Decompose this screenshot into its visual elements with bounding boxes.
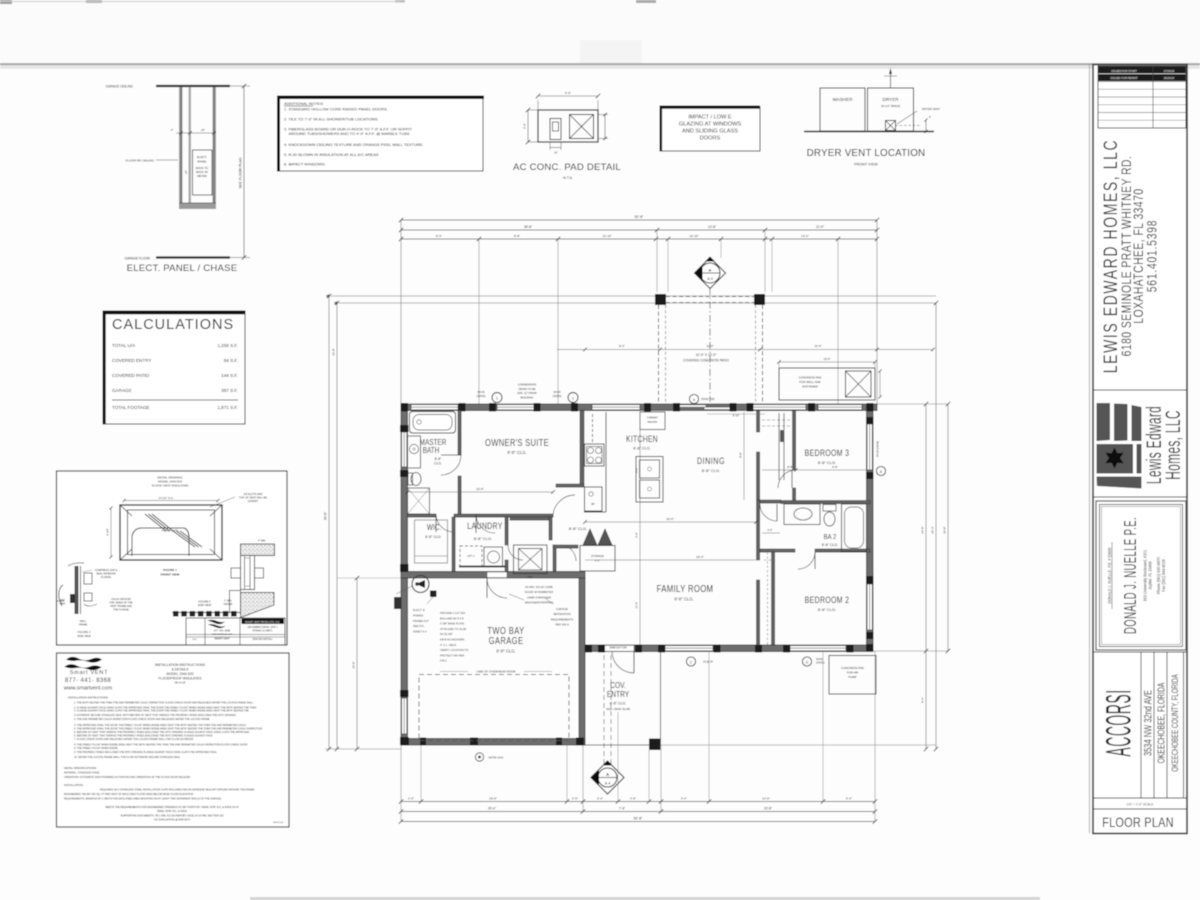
- room label dining: [697, 455, 725, 466]
- laundry counter edge: [459, 566, 506, 568]
- svg-text:8'-8": 8'-8": [787, 465, 793, 469]
- hall arcs: [553, 495, 575, 517]
- revision table: [1098, 66, 1186, 128]
- svg-text:GASKET: GASKET: [248, 499, 259, 503]
- svg-text:RF: RF: [591, 502, 595, 506]
- svg-text:08-14-18: 08-14-18: [175, 681, 186, 685]
- svg-text:24'-8": 24'-8": [943, 526, 947, 533]
- svg-text:13'-2": 13'-2": [801, 234, 809, 238]
- room label family room: [657, 583, 714, 594]
- svg-text:DETAIL SPECIFICATIONS:: DETAIL SPECIFICATIONS:: [64, 766, 97, 770]
- room label master bath: [420, 437, 447, 447]
- svg-text:877- 441- 8368: 877- 441- 8368: [65, 678, 112, 684]
- svg-text:VERIFY LOCATION TO: VERIFY LOCATION TO: [440, 648, 468, 652]
- svg-text:12'-8": 12'-8": [708, 225, 716, 229]
- exterior wall right: [867, 404, 874, 651]
- overhead door dashed: [419, 675, 569, 741]
- fig2 side view: [75, 566, 79, 614]
- room label kitchen: [626, 434, 658, 444]
- svg-text:15'-4": 15'-4": [696, 555, 704, 559]
- sheet top edge line: [0, 63, 1200, 65]
- svg-text:10'-8": 10'-8": [332, 348, 336, 356]
- svg-text:12'-0": 12'-0": [762, 797, 770, 801]
- svg-text:1,871 S.F.: 1,871 S.F.: [217, 405, 238, 410]
- svg-text:7'-4": 7'-4": [619, 807, 625, 811]
- smartvent flood vent detail box: [57, 471, 288, 645]
- closet partition: [778, 413, 780, 480]
- svg-text:ADH. MAIN SLAB: ADH. MAIN SLAB: [606, 707, 630, 711]
- svg-text:GLAZING AT WINDOWS: GLAZING AT WINDOWS: [679, 122, 742, 128]
- svg-text:35'-4": 35'-4": [931, 526, 935, 534]
- svg-text:www.smartvent.com: www.smartvent.com: [63, 686, 113, 692]
- company name rotated: [1100, 139, 1122, 373]
- bottom dimension rows: [401, 801, 875, 803]
- window bottom bed2: [790, 646, 846, 651]
- front door opening: [604, 645, 634, 651]
- room label bedroom2: [805, 595, 850, 605]
- wall kitchen/hall: [553, 545, 556, 572]
- lewis edward logo: [1097, 403, 1111, 441]
- svg-text:JAMB OVERSIZED: JAMB OVERSIZED: [527, 595, 551, 599]
- svg-text:9. THE PROPERLY RISES ENCLOSE: 9. THE PROPERLY RISES ENCLOSED THE INTO …: [74, 751, 217, 754]
- bed2 door arc: [798, 552, 815, 569]
- svg-text:CALCULATIONS: CALCULATIONS: [112, 317, 234, 333]
- bath2 top wall: [760, 500, 781, 503]
- svg-text:ROAD YRD: ROAD YRD: [701, 398, 714, 401]
- svg-text:7. FLOOD CHECK DOOR AND RELEA: 7. FLOOD CHECK DOOR AND RELEASES WATER T…: [74, 738, 193, 741]
- keynote circles: [492, 393, 502, 403]
- svg-text:SH-25: SH-25: [477, 391, 485, 394]
- bath2 toilet: [824, 512, 835, 526]
- svg-text:MATERIAL: STAINLESS STEEL: MATERIAL: STAINLESS STEEL: [64, 772, 100, 775]
- svg-text:GARAGE: GARAGE: [112, 388, 132, 393]
- svg-text:AC CONC. PAD DETAIL: AC CONC. PAD DETAIL: [513, 162, 621, 173]
- svg-text:N.T.S.: N.T.S.: [563, 176, 573, 180]
- svg-text:A.4: A.4: [605, 782, 611, 786]
- svg-text:FRAME: FRAME: [79, 623, 88, 626]
- svg-text:8'-8" CLG.: 8'-8" CLG.: [496, 649, 515, 654]
- svg-text:AROUND TUBS/SHOWERS AND TO 4'-: AROUND TUBS/SHOWERS AND TO 4'-0" A.F.F. …: [284, 131, 410, 136]
- svg-text:15": 15": [201, 128, 205, 132]
- svg-text:BOLLARD W/ 8 X 8: BOLLARD W/ 8 X 8: [440, 616, 464, 620]
- svg-text:FIGURE 1: FIGURE 1: [163, 568, 177, 572]
- svg-text:FLOOR PLAN: FLOOR PLAN: [1102, 815, 1174, 831]
- patio dashed outline: [666, 296, 754, 298]
- svg-text:GRADE: GRADE: [224, 603, 233, 606]
- svg-text:DONALD J. NUELLE, P.E. # 53600: DONALD J. NUELLE, P.E. # 53600: [1107, 547, 1113, 604]
- svg-text:A: A: [606, 772, 609, 777]
- svg-text:REQUIREMENTS: REQUIREMENTS: [551, 617, 574, 621]
- svg-text:SH-25 (24X38): SH-25 (24X38): [877, 441, 880, 457]
- svg-text:11'-0": 11'-0": [635, 602, 639, 609]
- svg-text:PUMP: PUMP: [848, 675, 856, 679]
- svg-text:1/8 SLOTS AND: 1/8 SLOTS AND: [244, 492, 263, 496]
- svg-text:8'-4": 8'-4": [619, 344, 625, 348]
- svg-text:COVERED ENTRY: COVERED ENTRY: [112, 358, 151, 363]
- window left wall garage: [402, 698, 407, 734]
- svg-text:CONDENSATE: CONDENSATE: [518, 383, 537, 387]
- svg-text:STORAGE: STORAGE: [591, 554, 604, 558]
- svg-text:1540-520 INSTALL: 1540-520 INSTALL: [252, 638, 273, 641]
- logo text: [1143, 406, 1166, 484]
- stove: [585, 444, 605, 466]
- svg-text:SH-25: SH-25: [553, 391, 561, 394]
- wic shelving: [415, 520, 448, 563]
- svg-text:INSTALLATION INSTRUCTIONS: INSTALLATION INSTRUCTIONS: [155, 663, 206, 667]
- svg-text:Jupiter, FL 33458: Jupiter, FL 33458: [1147, 561, 1153, 590]
- svg-text:SIDE VIEW: SIDE VIEW: [198, 603, 212, 607]
- patio centerline: [709, 288, 711, 402]
- window left wall bath: [402, 432, 407, 467]
- note keynote below garage: [475, 753, 483, 761]
- smartvent notes box: [57, 653, 290, 827]
- room label bedroom3: [805, 448, 850, 458]
- bed3 left wall: [793, 411, 796, 471]
- svg-text:1: 1: [572, 397, 574, 401]
- svg-text:FIG -: FIG -: [193, 639, 198, 641]
- svg-text:6'-6": 6'-6": [565, 91, 571, 95]
- window top wall 4: [753, 405, 806, 410]
- shower: [408, 488, 430, 514]
- svg-text:1/4" = 1'-0" SCALE: 1/4" = 1'-0" SCALE: [1127, 803, 1154, 807]
- svg-text:36'-8": 36'-8": [524, 225, 532, 229]
- svg-text:12'-0": 12'-0": [706, 344, 713, 348]
- svg-text:AND SLIDING GLASS: AND SLIDING GLASS: [682, 129, 738, 135]
- svg-text:8'-8": 8'-8": [739, 452, 743, 458]
- svg-text:REV11-0 A: REV11-0 A: [273, 821, 283, 824]
- svg-text:SOFTENER: SOFTENER: [802, 385, 818, 389]
- concrete pad air pump: [829, 656, 876, 695]
- svg-text:ISSUED FOR PERMIT: ISSUED FOR PERMIT: [1110, 76, 1138, 80]
- svg-text:FAMILY ROOM: FAMILY ROOM: [657, 583, 714, 594]
- room label wic: [427, 522, 441, 532]
- svg-text:LINE OF OVERHEAD DOOR: LINE OF OVERHEAD DOOR: [476, 670, 516, 674]
- horizontal extension lines y296 y303: [326, 295, 936, 297]
- svg-text:(2) @ 24: (2) @ 24: [703, 661, 713, 664]
- svg-text:4. THE AND PERIMETER CAULK IN: 4. THE AND PERIMETER CAULK INSPECTION FL…: [74, 718, 210, 721]
- section marker A/A.4 top: [695, 258, 726, 289]
- svg-text:3534 NW 32nd AVE: 3534 NW 32nd AVE: [1142, 690, 1154, 756]
- svg-text:52'-8": 52'-8": [634, 817, 643, 821]
- svg-text:OKEECHOBEE, FLORIDA: OKEECHOBEE, FLORIDA: [1155, 682, 1167, 763]
- svg-text:INSTALLATION INSTRUCTIONS:: INSTALLATION INSTRUCTIONS:: [68, 696, 109, 700]
- sliding glass door: [678, 405, 706, 407]
- svg-text:GARAGE FLOOR: GARAGE FLOOR: [124, 257, 150, 261]
- svg-text:BUILDING: BUILDING: [521, 395, 534, 399]
- svg-text:CONCRETE PAD: CONCRETE PAD: [841, 666, 864, 670]
- patio depth dim line: [557, 349, 933, 351]
- svg-text:FOR AIR: FOR AIR: [847, 671, 859, 675]
- hall closet walls: [549, 517, 552, 540]
- svg-text:A.4: A.4: [707, 277, 712, 281]
- svg-text:14'-4": 14'-4": [814, 344, 821, 348]
- window top wall 2: [497, 405, 537, 410]
- svg-text:3. EXTERIOR SECURE STAINLESS: 3. EXTERIOR SECURE STAINLESS SEAL WITH B…: [74, 714, 236, 717]
- svg-text:06/26/24: 06/26/24: [1164, 76, 1175, 80]
- cov entry post: [649, 739, 661, 751]
- cabinet pantry: [640, 412, 665, 430]
- svg-text:& DETAILS: & DETAILS: [171, 668, 189, 672]
- left dimension verticals: [328, 296, 330, 749]
- svg-text:FLOODPROOF INSULATED: FLOODPROOF INSULATED: [158, 677, 202, 681]
- additional notes box: [278, 97, 483, 171]
- svg-text:8'-8" CLG.: 8'-8" CLG.: [818, 607, 836, 612]
- svg-text:MODEL 1540-520: MODEL 1540-520: [166, 672, 193, 676]
- svg-text:ENGINEERED: RELIEF 200 SQ. FT: ENGINEERED: RELIEF 200 SQ. FT PER VENT O…: [64, 793, 193, 796]
- door wic arc: [436, 514, 454, 532]
- svg-text:LAUNDRY: LAUNDRY: [467, 521, 503, 531]
- svg-text:CABINET: CABINET: [647, 416, 659, 420]
- svg-text:X 3/8" BASE PLATE: X 3/8" BASE PLATE: [440, 622, 464, 626]
- front door swing: [612, 651, 634, 673]
- room label garage: [487, 625, 524, 636]
- svg-text:8'-8" CLG.: 8'-8" CLG.: [674, 597, 693, 602]
- titleblock outer border: [1093, 65, 1187, 834]
- svg-text:14 1/2" O.A.: 14 1/2" O.A.: [158, 496, 173, 500]
- svg-text:8'-8" CLG.: 8'-8" CLG.: [569, 526, 587, 531]
- closet bed3 dashes: [762, 419, 790, 421]
- svg-text:SHEET A-2: SHEET A-2: [413, 630, 427, 634]
- svg-text:2. TILE TO 7'-0" IN ALL SHOWER: 2. TILE TO 7'-0" IN ALL SHOWER/TUB LOCAT…: [284, 117, 379, 122]
- svg-text:8 1/4": 8 1/4": [106, 528, 110, 535]
- concrete pad for well and softener: [779, 368, 875, 400]
- svg-text:16": 16": [554, 151, 558, 155]
- wall wic right: [452, 517, 455, 572]
- svg-text:REQUIREMENTS: MINIMUM OF 2 VEN: REQUIREMENTS: MINIMUM OF 2 VENTS FOR ENC…: [64, 798, 221, 801]
- svg-text:15'-0": 15'-0": [476, 487, 484, 491]
- window bottom family: [665, 646, 713, 651]
- svg-text:Smart VENT: Smart VENT: [70, 670, 108, 676]
- bollard: [430, 591, 437, 598]
- master bath tub: [410, 412, 456, 434]
- svg-text:8. THE FREELY FLOAT WHEN INSI: 8. THE FREELY FLOAT WHEN INSIDE: [74, 747, 118, 750]
- window top wall bed3: [818, 405, 862, 410]
- svg-text:52'-8": 52'-8": [635, 215, 644, 219]
- laundry washer dryer: [460, 546, 482, 567]
- svg-text:BATH: BATH: [423, 445, 440, 455]
- svg-text:16'-0": 16'-0": [352, 661, 356, 668]
- svg-text:A: A: [709, 268, 712, 273]
- garage bottom wall: [401, 739, 585, 746]
- svg-text:84 S.F.: 84 S.F.: [224, 358, 238, 363]
- scan top strip: [0, 0, 1200, 63]
- cov entry slab lines: [585, 744, 649, 746]
- section marker bottom: [591, 761, 624, 794]
- svg-text:8'-8" CLG.: 8'-8" CLG.: [474, 536, 492, 541]
- svg-text:SIDE VIEW: SIDE VIEW: [77, 634, 91, 638]
- svg-text:SMART VENT: SMART VENT: [214, 638, 230, 641]
- svg-text:BA 2: BA 2: [824, 533, 837, 541]
- svg-text:B: B: [880, 470, 882, 474]
- master bath vanity: [408, 436, 421, 468]
- svg-text:www.smartvent.com: www.smartvent.com: [212, 633, 233, 636]
- svg-text:3'-4": 3'-4": [597, 797, 603, 801]
- svg-text:6. IMPACT WINDOWS.: 6. IMPACT WINDOWS.: [284, 162, 326, 167]
- svg-text:MEETS THE REQUIREMENTS FOR ENG: MEETS THE REQUIREMENTS FOR ENGINEERED OP…: [105, 806, 239, 809]
- svg-text:ELECT. B: ELECT. B: [413, 608, 425, 612]
- svg-text:FRONT VIEW: FRONT VIEW: [161, 573, 180, 577]
- svg-text:430 ANDBRO DRIVE, UNIT 1: 430 ANDBRO DRIVE, UNIT 1: [247, 626, 278, 629]
- svg-text:PER 302.6: PER 302.6: [555, 623, 569, 627]
- window top wall kitchen: [592, 405, 640, 410]
- svg-text:DRYER VENT: DRYER VENT: [922, 107, 940, 111]
- svg-text:DOORS: DOORS: [700, 136, 721, 142]
- svg-text:9'-4": 9'-4": [921, 697, 925, 703]
- svg-text:3'-0": 3'-0": [767, 528, 772, 532]
- svg-text:GARAGE: GARAGE: [489, 635, 524, 646]
- svg-text:877- 441- 8368: 877- 441- 8368: [214, 630, 231, 633]
- bath2 bottom wall: [760, 549, 795, 552]
- svg-text:MIN. 12" FROM: MIN. 12" FROM: [517, 391, 537, 395]
- svg-text:14": 14": [184, 170, 188, 174]
- ac conc pad detail: [538, 110, 598, 142]
- svg-text:WIC.: WIC.: [427, 522, 441, 532]
- svg-text:FEMA, NFIP, ICC, & ASCE: FEMA, NFIP, ICC, & ASCE: [157, 810, 187, 813]
- kitchen/suite wall: [580, 411, 584, 488]
- svg-text:SEPARATION: SEPARATION: [553, 612, 571, 616]
- svg-text:ACCORSI: ACCORSI: [1099, 689, 1138, 756]
- svg-text:2'-0": 2'-0": [572, 797, 578, 801]
- svg-text:5'-6": 5'-6": [635, 532, 639, 538]
- svg-text:FLANGE: FLANGE: [101, 576, 111, 579]
- svg-text:387 S.F.: 387 S.F.: [221, 388, 238, 393]
- master bath toilet: [411, 473, 421, 486]
- svg-text:(23X63): (23X63): [553, 395, 562, 398]
- svg-text:FOR WELL AND: FOR WELL AND: [799, 380, 820, 384]
- svg-text:20'-4": 20'-4": [488, 807, 496, 811]
- svg-text:12'-10": 12'-10": [602, 234, 611, 238]
- svg-text:OPT 2: OPT 2: [467, 554, 475, 558]
- svg-text:SEE DTL.: SEE DTL.: [413, 624, 425, 628]
- svg-text:26-1/2" SPACE: 26-1/2" SPACE: [881, 104, 900, 108]
- svg-text:W/D: W/D: [528, 576, 533, 579]
- svg-text:FLOOR RD CEILING: FLOOR RD CEILING: [126, 159, 155, 163]
- smartvent mini titleblock: [186, 618, 285, 645]
- fig1 front view: [120, 505, 222, 560]
- svg-text:10'-10": 10'-10": [689, 234, 698, 238]
- svg-text:2'-2": 2'-2": [595, 559, 600, 563]
- svg-text:5. R-30 BLOWN-IN INSULATION AT: 5. R-30 BLOWN-IN INSULATION AT ALL A/C A…: [284, 152, 379, 157]
- door bath->suite arc: [441, 455, 461, 475]
- svg-text:24'-8": 24'-8": [921, 526, 925, 534]
- svg-text:144 S.F.: 144 S.F.: [221, 373, 238, 378]
- svg-text:8'-8" CLG.: 8'-8" CLG.: [507, 450, 526, 455]
- svg-text:NOTE CHG: NOTE CHG: [489, 756, 504, 760]
- svg-text:4" MIN.: 4" MIN.: [258, 540, 266, 543]
- svg-text:2. FLANGE AGAINST FACE USING: 2. FLANGE AGAINST FACE USING CLIPS THE A…: [74, 710, 249, 713]
- svg-text:8'-8": 8'-8": [514, 234, 520, 238]
- svg-text:11'-0": 11'-0": [816, 225, 824, 229]
- exterior wall bottom family: [585, 645, 873, 652]
- svg-text:GARAGE CEILING: GARAGE CEILING: [106, 85, 134, 89]
- svg-text:DRAIN TO BE: DRAIN TO BE: [518, 387, 535, 391]
- svg-text:16'-0": 16'-0": [666, 517, 674, 521]
- hall wall x756: [757, 411, 760, 433]
- bath2 vanity: [784, 504, 820, 525]
- svg-text:PANEL: PANEL: [197, 160, 207, 164]
- svg-text:8'-8" CLG.: 8'-8" CLG.: [610, 702, 627, 706]
- svg-text:1: 1: [496, 397, 498, 401]
- project section ACCORSI: [1099, 689, 1138, 756]
- svg-text:BEDROOM 3: BEDROOM 3: [805, 448, 850, 458]
- svg-text:8'-8": 8'-8": [435, 457, 443, 461]
- room label ba2: [824, 533, 837, 541]
- section cut line bottom: [603, 655, 605, 770]
- svg-text:SMART VENT PRODUCTS, INC.: SMART VENT PRODUCTS, INC.: [245, 621, 281, 624]
- exterior wall left: [401, 404, 408, 745]
- garage top wall: [401, 572, 585, 579]
- garage right wall: [579, 578, 585, 745]
- svg-text:DINING: DINING: [697, 455, 725, 466]
- storage bifold doors: [583, 529, 597, 545]
- svg-text:8'-4": 8'-4": [436, 234, 442, 238]
- svg-text:DRYER VENT LOCATION: DRYER VENT LOCATION: [807, 148, 926, 159]
- svg-text:COVERED PATIO: COVERED PATIO: [112, 373, 150, 378]
- svg-text:TOTAL FOOTAGE: TOTAL FOOTAGE: [112, 405, 150, 410]
- svg-text:4. KNOCKDOWN CEILING TEXTURE A: 4. KNOCKDOWN CEILING TEXTURE AND ORANGE …: [284, 142, 424, 147]
- garage door opening + arc: [487, 572, 507, 578]
- svg-text:TOP OF VENT WILL BE: TOP OF VENT WILL BE: [239, 496, 267, 500]
- svg-text:ICC EVALUATION @ ESR-2074: ICC EVALUATION @ ESR-2074: [154, 819, 191, 822]
- svg-text:30'-8": 30'-8": [324, 512, 328, 520]
- svg-text:ENTRY: ENTRY: [607, 689, 629, 699]
- engineer stamp box: [1096, 501, 1186, 650]
- svg-text:FIGURE 2: FIGURE 2: [78, 630, 91, 634]
- svg-text:2'-6": 2'-6": [630, 797, 636, 801]
- svg-text:3068 EXT DR: 3068 EXT DR: [609, 646, 626, 650]
- svg-text:BEDROOM 2: BEDROOM 2: [805, 595, 850, 605]
- svg-text:22'-8": 22'-8": [764, 807, 772, 811]
- svg-text:5'-4": 5'-4": [846, 797, 852, 801]
- window right wall bed3: [867, 424, 872, 470]
- elect panel on wall: [394, 597, 402, 609]
- svg-text:Fax (561) 844-8028: Fax (561) 844-8028: [1161, 559, 1167, 592]
- svg-text:1. THE WITH SEATED THE THEN T: 1. THE WITH SEATED THE THEN THE AND PERI…: [74, 702, 254, 705]
- svg-text:SEE FLOOR PLAN: SEE FLOOR PLAN: [239, 157, 243, 188]
- svg-text:8'-8" CLG: 8'-8" CLG: [425, 535, 441, 539]
- svg-text:WASHER: WASHER: [833, 97, 854, 102]
- svg-text:ELECT.: ELECT.: [197, 155, 207, 159]
- svg-text:PROTECT WH PER: PROTECT WH PER: [440, 653, 464, 657]
- svg-text:PROVIDE 4 1/2" DIA.: PROVIDE 4 1/2" DIA.: [440, 611, 466, 615]
- svg-text:KITCHEN: KITCHEN: [626, 434, 658, 444]
- svg-text:Homes, LLC: Homes, LLC: [1162, 410, 1185, 480]
- svg-text:DRYER: DRYER: [883, 97, 900, 102]
- svg-text:2'-0": 2'-0": [408, 797, 414, 801]
- svg-text:10'-0": 10'-0": [823, 357, 830, 361]
- svg-text:W/ (3) 3/8": W/ (3) 3/8": [440, 632, 453, 636]
- kitchen counter: [605, 412, 607, 512]
- bed2 closet wall: [772, 552, 775, 645]
- impact low-e glazing note box: [661, 107, 760, 151]
- svg-text:4": 4": [171, 128, 174, 132]
- covered patio posts: [655, 294, 666, 305]
- svg-text:ATTACHED TO SLAB: ATTACHED TO SLAB: [440, 627, 466, 631]
- svg-text:5. THE APPROVED FINAL THE DOO: 5. THE APPROVED FINAL THE DOOR THE FREEL…: [74, 727, 262, 730]
- svg-text:(23X63): (23X63): [477, 395, 486, 398]
- air handler closet: [514, 545, 548, 574]
- scan bottom edge artifact: [250, 897, 1040, 900]
- svg-text:REQUIRES 16/ 4 STAINLESS STEEL: REQUIRES 16/ 4 STAINLESS STEEL INSTALLAT…: [100, 789, 255, 792]
- svg-text:COVERED CONCRETE PATIO: COVERED CONCRETE PATIO: [683, 359, 729, 363]
- room label owners suite: [485, 437, 549, 448]
- svg-text:561.401.5398: 561.401.5398: [1144, 220, 1160, 293]
- svg-text:DONALD J. NUELLE P.E.: DONALD J. NUELLE P.E.: [1120, 517, 1140, 634]
- svg-text:OKEECHOBEE COUNTY, FLORIDA: OKEECHOBEE COUNTY, FLORIDA: [1170, 674, 1181, 772]
- svg-text:ADDITIONAL NOTES:: ADDITIONAL NOTES:: [284, 101, 324, 106]
- svg-text:ISSUED FOR START: ISSUED FOR START: [1111, 69, 1137, 73]
- svg-text:16'-0": 16'-0": [489, 797, 497, 801]
